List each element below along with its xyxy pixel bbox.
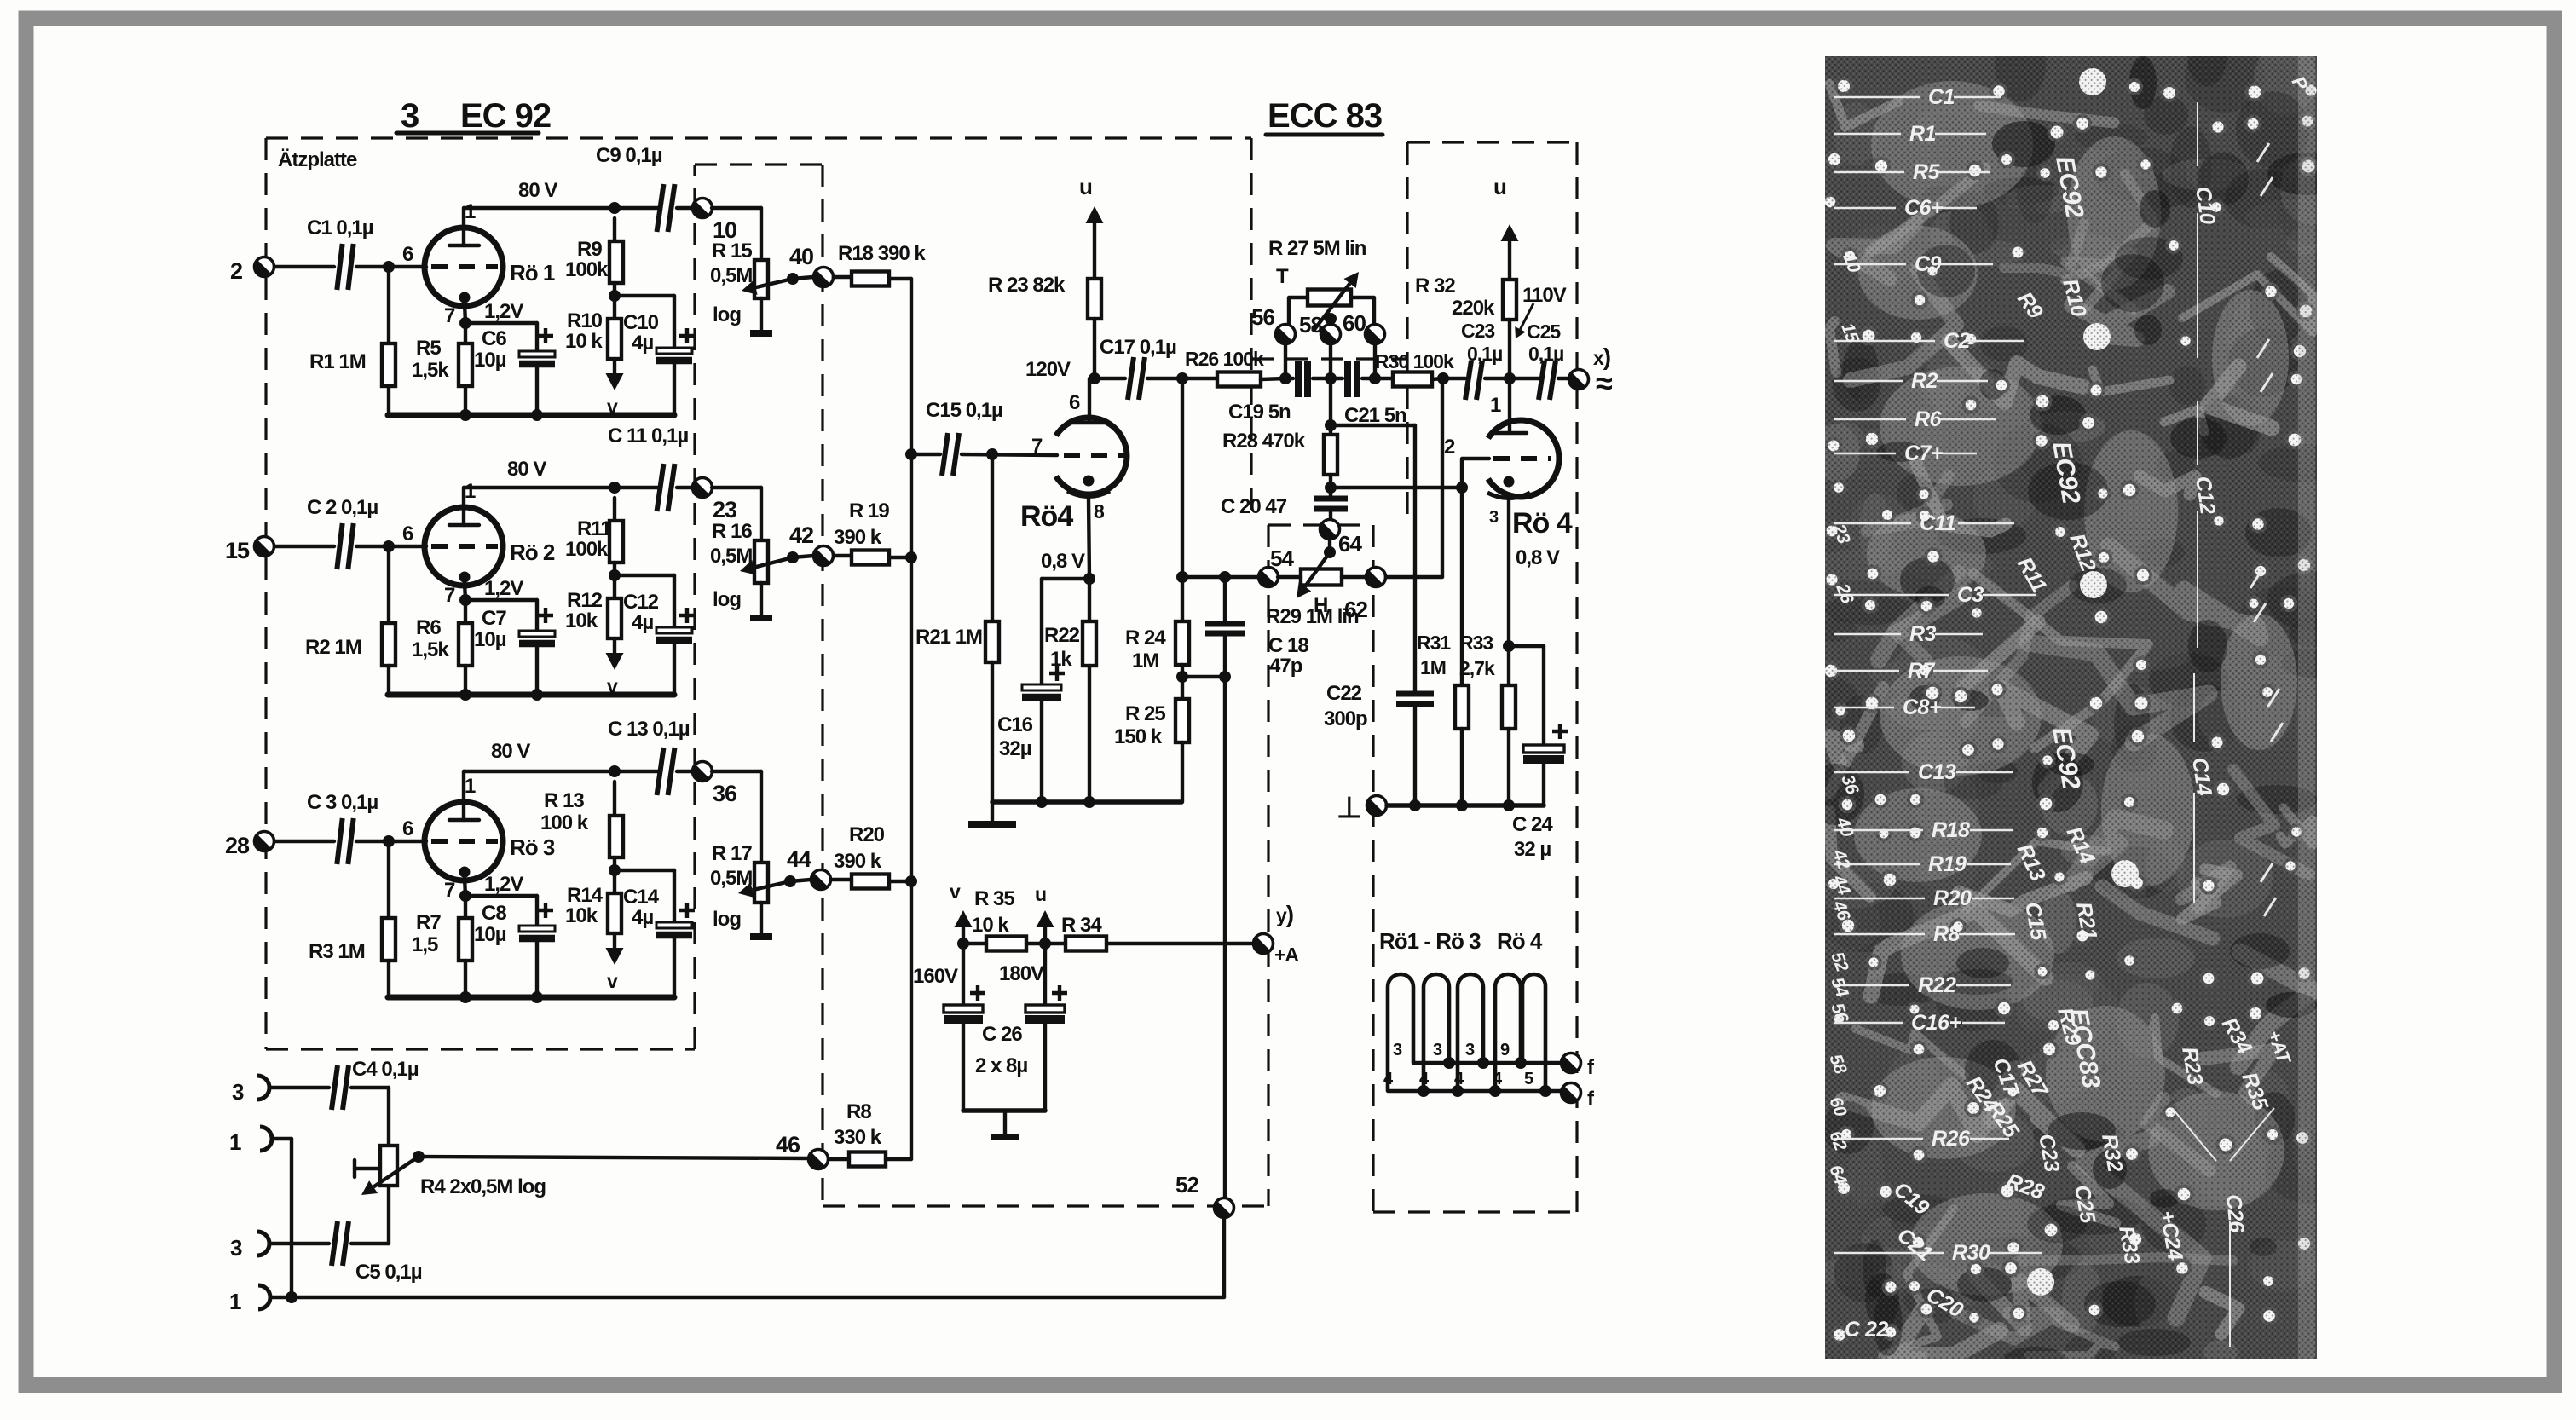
junction wiper: [784, 875, 796, 887]
wire to bus: [889, 556, 911, 559]
potentiometer R4 2x0,5M log: [355, 1146, 546, 1198]
svg-text:R 23 82k: R 23 82k: [988, 274, 1066, 297]
wire Roe4a ground bus: [992, 799, 1181, 805]
capacitor C14 4&#181; (electrolytic): [615, 870, 695, 997]
wire 46 to R4 wiper: [422, 1157, 809, 1158]
resistor R28 470k: [1222, 378, 1337, 488]
svg-text:R 34: R 34: [1061, 914, 1102, 937]
resistor R18 390k: [834, 242, 926, 286]
junction wiper R29: [1328, 539, 1331, 552]
ground: [750, 615, 772, 621]
svg-text:1,2V: 1,2V: [484, 300, 523, 323]
jack 3 (upper): [232, 1076, 269, 1105]
svg-text:6: 6: [1069, 391, 1080, 414]
terminal 23: [693, 478, 738, 523]
capacitor C16 32u (bypass): [997, 579, 1089, 802]
junction grid node: [383, 540, 395, 552]
svg-text:44: 44: [787, 846, 811, 872]
ground: [750, 933, 772, 940]
svg-text:60: 60: [1343, 310, 1366, 336]
svg-text:C 24: C 24: [1512, 813, 1553, 836]
junction cathode 0,8V: [1083, 573, 1095, 585]
resistor R30 100k: [1375, 350, 1454, 387]
arrow to supply v: [606, 933, 624, 992]
resistor R6 1,5k (cathode): [412, 600, 472, 695]
resistor R 34: [1045, 914, 1253, 951]
wire R28 top to C22: [1331, 425, 1415, 694]
junction R24 top: [1176, 372, 1188, 384]
svg-text:100 k: 100 k: [540, 811, 589, 834]
junction R30 out: [1437, 372, 1449, 384]
junction R28 bottom: [1325, 482, 1337, 494]
junction RA/RB/CE: [609, 569, 621, 581]
svg-text:R29 1M lin: R29 1M lin: [1266, 605, 1359, 628]
svg-text:100k: 100k: [565, 538, 609, 561]
svg-text:8: 8: [1094, 500, 1105, 522]
capacitor C18 47p: [1205, 577, 1308, 678]
resistor R5 1,5k (cathode): [412, 323, 472, 415]
terminal 28 (input): [225, 832, 274, 859]
svg-text:4: 4: [1493, 1070, 1503, 1088]
svg-text:C25: C25: [1527, 320, 1561, 343]
svg-text:R8: R8: [1933, 922, 1961, 946]
svg-text:R33: R33: [1459, 632, 1493, 654]
resistor R26 100k: [1182, 348, 1285, 387]
junction grid node: [383, 835, 395, 847]
svg-text:80 V: 80 V: [518, 179, 557, 202]
potentiometer R 27 5M lin (T): [1268, 237, 1374, 332]
junction u node: [1039, 938, 1051, 950]
title 3 EC92: [396, 97, 551, 135]
svg-text:R22: R22: [1918, 973, 1956, 997]
svg-text:6: 6: [402, 817, 413, 840]
svg-text:4: 4: [1454, 1070, 1464, 1088]
svg-text:R4 2x0,5M log: R4 2x0,5M log: [420, 1175, 546, 1198]
wire 52 to jack rail: [1222, 1217, 1226, 1297]
arrow to supply v: [606, 359, 624, 418]
svg-text:R31: R31: [1417, 632, 1451, 654]
junction C21 out: [1369, 372, 1381, 384]
svg-text:Rö 2: Rö 2: [510, 540, 555, 565]
svg-text:390 k: 390 k: [834, 850, 882, 873]
junction R4 wiper: [413, 1151, 425, 1163]
potentiometer R29 1M lin (H): [1266, 552, 1367, 628]
svg-text:f: f: [1587, 1088, 1595, 1111]
svg-text:log: log: [713, 588, 741, 611]
svg-text:R5: R5: [1913, 160, 1941, 184]
capacitor C15 0,1u: [926, 399, 1057, 476]
svg-text:3: 3: [1489, 508, 1499, 527]
svg-text:80 V: 80 V: [507, 458, 546, 481]
junction bus: [459, 689, 471, 701]
svg-text:+A: +A: [1274, 944, 1298, 966]
junction R24/R25/C18: [1176, 671, 1188, 683]
terminal 10: [693, 199, 737, 244]
svg-text:C7: C7: [482, 607, 506, 630]
junction grid node: [383, 261, 395, 273]
svg-text:4µ: 4µ: [632, 906, 653, 929]
terminal y) +A: [1254, 901, 1299, 966]
wire to bus: [889, 880, 911, 883]
svg-text:Rö 4: Rö 4: [1512, 507, 1573, 540]
svg-text:C3: C3: [1957, 583, 1984, 607]
resistor R11 100k: [565, 498, 623, 563]
svg-text:C16: C16: [997, 713, 1033, 736]
svg-text:R2 1M: R2 1M: [305, 636, 361, 659]
capacitor C1 0,1&#181;: [307, 216, 373, 290]
terminal 64: [1320, 520, 1363, 557]
capacitor C10 4&#181; (electrolytic): [615, 296, 695, 415]
svg-text:C6+: C6+: [1904, 196, 1944, 220]
svg-text:56: 56: [1251, 304, 1274, 330]
junction R28 top: [1325, 419, 1337, 431]
svg-text:C4 0,1µ: C4 0,1µ: [352, 1058, 419, 1081]
triode Roe 2: [402, 480, 555, 607]
svg-text:4µ: 4µ: [632, 611, 653, 634]
capacitor C20 47: [1221, 488, 1348, 521]
svg-text:1: 1: [229, 1289, 241, 1314]
resistor R 35 10 k: [963, 887, 1045, 951]
capacitor C6 10&#181; (cathode bypass): [465, 323, 555, 415]
wire cap to output terminal: [677, 770, 693, 773]
svg-text:1: 1: [465, 480, 476, 503]
dashed box Aetzplatte / ECC83 outlines: [266, 138, 1577, 1212]
junction cathode: [459, 317, 471, 329]
svg-text:R7: R7: [1908, 659, 1936, 683]
svg-text:120V: 120V: [1025, 358, 1071, 381]
junction RA/RB/CE: [609, 864, 621, 876]
svg-text:1k: 1k: [1050, 648, 1072, 671]
svg-text:40: 40: [789, 244, 813, 269]
svg-text:1,2V: 1,2V: [484, 873, 523, 896]
arrow v: [950, 880, 973, 944]
label 1,2V: [484, 873, 523, 896]
resistor R14 10k (decoupling): [565, 870, 621, 933]
svg-text:Rö 1: Rö 1: [510, 260, 555, 286]
svg-text:23: 23: [713, 497, 737, 522]
resistor R1 1M (grid): [309, 267, 396, 415]
svg-text:R 25: R 25: [1125, 702, 1165, 725]
resistor R2 1M (grid): [305, 546, 396, 695]
capacitor C2 0,1&#181;: [307, 496, 378, 569]
svg-text:110V: 110V: [1522, 284, 1567, 307]
svg-text:R5: R5: [416, 337, 441, 360]
junction v node: [957, 938, 969, 950]
svg-text:C9: C9: [1915, 252, 1942, 276]
label 80V: [507, 458, 546, 481]
wire mixing bus: [910, 279, 913, 1159]
svg-text:3: 3: [1433, 1041, 1442, 1059]
svg-text:1,5k: 1,5k: [412, 359, 449, 382]
capacitor C (coupling): [608, 718, 690, 795]
svg-text:C 18: C 18: [1268, 634, 1308, 657]
terminal 56: [1251, 304, 1296, 378]
svg-text:C14: C14: [623, 886, 660, 909]
wire 62 to R30 node: [1386, 379, 1442, 577]
svg-text:R26 100k: R26 100k: [1185, 348, 1264, 370]
capacitor C21 5n: [1331, 361, 1406, 427]
svg-text:R19: R19: [1928, 852, 1967, 876]
terminal 15 (input): [225, 537, 274, 564]
label 1,2V: [484, 300, 523, 323]
capacitor C8 10&#181; (cathode bypass): [465, 896, 555, 997]
junction cathode Roe4b: [1503, 640, 1515, 652]
svg-text:300p: 300p: [1324, 707, 1367, 730]
wire anode 80V rail: [464, 206, 658, 210]
arrow to supply v: [606, 638, 624, 697]
svg-text:R9: R9: [577, 238, 602, 261]
svg-text:R 24: R 24: [1125, 626, 1166, 649]
junction bus: [1036, 796, 1048, 808]
capacitor C (coupling): [608, 424, 688, 511]
wire C18 to terminal 52: [1223, 677, 1227, 1198]
terminal f (lower): [1562, 1083, 1596, 1111]
svg-text:log: log: [713, 908, 741, 931]
junction bus: [1409, 799, 1421, 811]
capacitor C26 2x8u: [913, 944, 1067, 1111]
svg-text:u: u: [1035, 883, 1046, 905]
capacitor C17 0,1u: [1100, 336, 1182, 400]
wire ground bus Roe4b: [1387, 803, 1544, 808]
svg-text:9: 9: [1500, 1041, 1510, 1059]
svg-text:1,2V: 1,2V: [484, 577, 523, 600]
capacitor C3 0,1&#181;: [307, 791, 378, 864]
svg-text:Rö1 - Rö 3: Rö1 - Rö 3: [1379, 928, 1481, 954]
svg-text:R28 470k: R28 470k: [1222, 430, 1306, 453]
svg-text:C5 0,1µ: C5 0,1µ: [355, 1261, 422, 1284]
svg-text:v: v: [607, 970, 618, 992]
capacitor C19 5n: [1228, 361, 1331, 424]
triode Roe 4 (right half): [1444, 378, 1573, 646]
svg-text:C 26: C 26: [982, 1023, 1022, 1046]
label 80V: [518, 179, 557, 202]
svg-text:C10: C10: [623, 311, 659, 334]
junction 80V/RA: [609, 482, 621, 494]
wire cap to output terminal: [677, 206, 693, 210]
svg-text:≈: ≈: [1596, 366, 1613, 401]
svg-text:R30: R30: [1952, 1241, 1990, 1265]
svg-text:v: v: [950, 880, 961, 903]
wire R24-C18 bottom link: [1182, 675, 1225, 678]
ground: [968, 802, 1016, 824]
resistor R12 10k (decoupling): [565, 575, 621, 638]
svg-text:64: 64: [1338, 531, 1362, 557]
svg-text:5: 5: [1524, 1070, 1533, 1088]
svg-text:R 35: R 35: [974, 887, 1014, 910]
svg-text:2,7k: 2,7k: [1459, 657, 1495, 679]
svg-text:0,8 V: 0,8 V: [1041, 550, 1085, 573]
svg-text:10µ: 10µ: [474, 628, 506, 651]
svg-text:3: 3: [230, 1235, 242, 1261]
svg-text:4µ: 4µ: [632, 332, 653, 355]
svg-text:C7+: C7+: [1904, 442, 1944, 465]
svg-text:C 2 0,1µ: C 2 0,1µ: [307, 496, 378, 519]
terminal 44: [787, 846, 831, 890]
svg-text:6: 6: [402, 522, 413, 545]
jack 1 (lower): [229, 1285, 270, 1314]
svg-text:52: 52: [1175, 1172, 1198, 1198]
terminal 46: [776, 1132, 829, 1169]
terminal 54: [1259, 545, 1295, 587]
resistor R 32 220k: [1415, 174, 1519, 378]
svg-text:330 k: 330 k: [834, 1126, 882, 1149]
svg-text:C 11 0,1µ: C 11 0,1µ: [608, 424, 688, 447]
svg-text:R3: R3: [1909, 622, 1937, 646]
wire cathode bus: [388, 413, 674, 418]
resistor R9 100k: [565, 218, 623, 283]
svg-text:R18 390 k: R18 390 k: [838, 242, 926, 265]
svg-text:80 V: 80 V: [491, 740, 530, 763]
capacitor C9 (coupling): [596, 144, 675, 232]
svg-text:C6: C6: [482, 327, 506, 350]
svg-text:C 20 47: C 20 47: [1221, 495, 1287, 518]
wire grid Roe4b: [1331, 459, 1489, 488]
svg-text:R 17: R 17: [712, 842, 752, 865]
wire input to C: [274, 265, 334, 268]
terminal 58: [1299, 312, 1341, 378]
wire C to grid junction: [356, 265, 426, 268]
svg-text:0,8 V: 0,8 V: [1516, 546, 1560, 569]
svg-text:C15 0,1µ: C15 0,1µ: [926, 399, 1002, 422]
junction cathode: [459, 594, 471, 606]
capacitor C4 0,1u: [270, 1058, 419, 1146]
svg-text:R20: R20: [1933, 886, 1972, 910]
svg-text:3: 3: [232, 1079, 244, 1105]
svg-text:R2: R2: [1911, 369, 1938, 393]
svg-text:36: 36: [713, 781, 737, 806]
svg-text:C16+: C16+: [1911, 1011, 1961, 1035]
wire cap to output terminal: [677, 486, 693, 489]
junction C18 bottom: [1219, 671, 1231, 683]
wire jack1 bottom rail: [273, 1139, 1224, 1297]
svg-text:Rö 3: Rö 3: [510, 834, 555, 860]
svg-text:Ätzplatte: Ätzplatte: [278, 148, 357, 171]
svg-text:R11: R11: [577, 517, 611, 540]
capacitor C23 0,1u: [1443, 320, 1510, 400]
resistor R31 1M: [1417, 488, 1469, 805]
terminal 62: [1366, 568, 1386, 587]
svg-text:log: log: [713, 303, 741, 326]
jack 3 (lower): [230, 1232, 269, 1261]
svg-text:32 µ: 32 µ: [1514, 838, 1551, 861]
label 1,2V: [484, 577, 523, 600]
svg-text:0,5M: 0,5M: [710, 867, 752, 890]
svg-text:10k: 10k: [565, 609, 598, 632]
junction jack rail: [286, 1291, 297, 1303]
svg-text:f: f: [1587, 1056, 1595, 1079]
svg-text:54: 54: [1270, 545, 1294, 571]
svg-text:10k: 10k: [565, 904, 598, 927]
terminal 2 (input): [230, 257, 274, 285]
svg-text:160V: 160V: [913, 965, 958, 988]
svg-text:C19 5n: C19 5n: [1228, 401, 1291, 424]
junction C18 node: [1219, 571, 1231, 583]
svg-text:C13: C13: [1918, 760, 1956, 784]
svg-text:3: 3: [401, 97, 419, 135]
svg-text:R 19: R 19: [849, 499, 889, 522]
svg-text:28: 28: [225, 833, 250, 858]
svg-text:1: 1: [465, 775, 476, 798]
svg-text:R21 1M: R21 1M: [915, 626, 982, 649]
svg-text:46: 46: [776, 1132, 800, 1157]
svg-text:R30 100k: R30 100k: [1375, 350, 1454, 372]
svg-text:1: 1: [465, 200, 476, 223]
svg-text:C23: C23: [1461, 320, 1494, 342]
wire 54 row: [1182, 575, 1259, 579]
svg-text:C 3 0,1µ: C 3 0,1µ: [307, 791, 378, 814]
wire to bus: [889, 277, 911, 280]
capacitor C22 300p: [1324, 682, 1434, 805]
svg-text:150 k: 150 k: [1114, 725, 1163, 748]
wire C to grid junction: [356, 545, 426, 548]
svg-text:10µ: 10µ: [474, 923, 506, 946]
resistor R20 390k: [831, 823, 889, 889]
svg-text:0,5M: 0,5M: [710, 264, 752, 287]
svg-text:R1: R1: [1909, 122, 1936, 146]
wire cathode bus: [388, 995, 674, 1001]
svg-text:C17 0,1µ: C17 0,1µ: [1100, 336, 1176, 359]
resistor R19 390k: [834, 499, 889, 565]
svg-text:C 13 0,1µ: C 13 0,1µ: [608, 718, 690, 741]
svg-text:47p: 47p: [1269, 655, 1302, 678]
svg-text:C8+: C8+: [1903, 696, 1942, 719]
svg-text:7: 7: [444, 879, 455, 902]
svg-text:2: 2: [1444, 436, 1455, 459]
svg-text:C 22: C 22: [1845, 1318, 1888, 1342]
ground: [750, 330, 772, 337]
capacitor C12 4&#181; (electrolytic): [615, 575, 695, 695]
resistor R8 330k: [828, 1100, 911, 1167]
resistor R 23 82k: [988, 274, 1101, 378]
svg-text:C9 0,1µ: C9 0,1µ: [596, 144, 662, 167]
svg-text:0,5M: 0,5M: [710, 545, 752, 568]
svg-text:0,1µ: 0,1µ: [1528, 343, 1563, 365]
terminal 60: [1343, 310, 1385, 378]
svg-text:R6: R6: [1915, 407, 1943, 431]
svg-text:R6: R6: [416, 616, 441, 639]
junction bus: [459, 991, 471, 1003]
svg-text:C1: C1: [1928, 85, 1955, 109]
junction 120V node: [1089, 372, 1100, 384]
resistor R33 2,7k: [1459, 632, 1516, 805]
wire C to grid junction: [356, 840, 426, 843]
svg-text:R12: R12: [567, 589, 603, 612]
svg-text:220k: 220k: [1452, 297, 1495, 320]
wire anode 80V rail: [464, 486, 658, 489]
terminal 52: [1175, 1172, 1234, 1218]
ground: [991, 1111, 1019, 1137]
capacitor C 24 32u: [1509, 646, 1568, 861]
junction RA/RB/CE: [609, 290, 621, 302]
junction R24 54-wire: [1176, 571, 1188, 583]
label 80V: [491, 740, 530, 763]
arrow u (supply): [1079, 174, 1104, 279]
svg-text:390 k: 390 k: [834, 526, 882, 549]
svg-text:1: 1: [1490, 394, 1501, 417]
junction C15/R21: [986, 448, 998, 460]
svg-text:C2: C2: [1944, 329, 1971, 353]
svg-text:R18: R18: [1932, 818, 1970, 842]
svg-text:7: 7: [444, 584, 455, 607]
svg-text:180V: 180V: [999, 962, 1044, 985]
label Aetzplatte: [278, 148, 357, 171]
heater wiring Roe1-Roe3 Roe4: [1379, 928, 1562, 1097]
capacitor C7 10&#181; (cathode bypass): [465, 600, 555, 695]
svg-text:10 k: 10 k: [972, 914, 1009, 937]
triode Roe 4 (left half): [1020, 378, 1127, 579]
svg-text:R 32: R 32: [1415, 274, 1455, 297]
svg-text:u: u: [1493, 174, 1506, 199]
